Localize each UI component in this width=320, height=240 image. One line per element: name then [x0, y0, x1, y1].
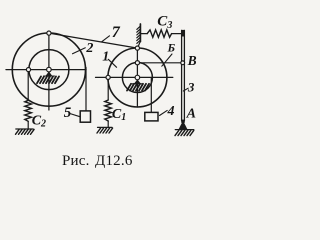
- svg-text:B: B: [187, 53, 197, 68]
- spring C3: [147, 30, 171, 37]
- svg-text:A: A: [186, 107, 196, 122]
- spring C3 left lead: [141, 33, 147, 35]
- ground under C2: [16, 128, 33, 130]
- rod 3 right line: [183, 30, 185, 120]
- spring C3 right lead: [172, 33, 182, 35]
- svg-text:5: 5: [64, 105, 72, 121]
- ground under rod: [175, 129, 194, 131]
- cord to spring C1: [107, 80, 109, 101]
- spring C2 lower lead: [27, 121, 29, 129]
- pulley 2 vertical axis line: [48, 33, 50, 110]
- leader label 4: [160, 110, 168, 115]
- cord to weight 4: [150, 78, 152, 112]
- node inner-top of pulley 1: [135, 61, 139, 65]
- leader label Б: [162, 54, 172, 66]
- cord to spring C2: [27, 72, 29, 101]
- pivot 1 triangle: [134, 79, 141, 83]
- pivot 1 base line: [132, 83, 143, 85]
- pivot of pulley 1: [135, 75, 140, 80]
- spring C2: [25, 100, 32, 121]
- ground under C1: [98, 126, 113, 128]
- cord Б to point B: [137, 62, 183, 64]
- leader label 2: [73, 48, 86, 54]
- svg-text:2: 2: [85, 41, 93, 56]
- svg-text:Б: Б: [167, 41, 176, 55]
- weight 4: [145, 112, 158, 121]
- node left of pulley 1: [106, 75, 110, 79]
- pivot of pulley 2: [47, 67, 52, 72]
- spring C1: [105, 100, 112, 121]
- node left of pulley 2 inner circle: [26, 68, 30, 72]
- cord 7: [49, 33, 138, 48]
- svg-text:4: 4: [167, 104, 175, 119]
- leader label 3: [183, 88, 188, 91]
- leader label 7: [102, 36, 110, 42]
- pivot 2 triangle: [45, 72, 52, 77]
- svg-text:7: 7: [112, 24, 121, 41]
- leader label 1: [108, 59, 116, 67]
- pivot 2 hatching: [37, 76, 59, 83]
- pulley 2 inner circle: [29, 50, 69, 90]
- node B: [181, 61, 185, 65]
- spring C1 lower lead: [107, 121, 109, 127]
- pulley 2 horizontal axis line: [6, 69, 86, 71]
- cord pulley 1 top to wall: [138, 41, 141, 48]
- svg-text:3: 3: [187, 80, 195, 95]
- rod support triangle: [179, 121, 188, 130]
- pivot 2 base line: [44, 75, 55, 77]
- rod bottom hinge: [181, 120, 185, 123]
- rod 3 top cap: [181, 30, 184, 37]
- pivot 1 hatching: [127, 84, 149, 91]
- pulley 1 vertical axis line: [136, 48, 138, 107]
- leader label 5: [70, 114, 81, 117]
- rod 3 left line: [181, 30, 183, 120]
- pulley 1 horizontal axis line: [96, 76, 173, 78]
- wall bracket: [139, 24, 141, 42]
- node top of pulley 2: [47, 31, 51, 35]
- cord to weight 5: [85, 68, 87, 111]
- pulley 1 outer circle: [108, 48, 167, 107]
- pulley 2 outer circle: [12, 33, 85, 106]
- svg-text:1: 1: [102, 50, 109, 65]
- svg-text:Рис. Д12.6: Рис. Д12.6: [62, 153, 133, 169]
- weight 5: [80, 111, 90, 122]
- pulley 1 inner circle: [122, 63, 152, 93]
- node top of pulley 1: [135, 46, 139, 50]
